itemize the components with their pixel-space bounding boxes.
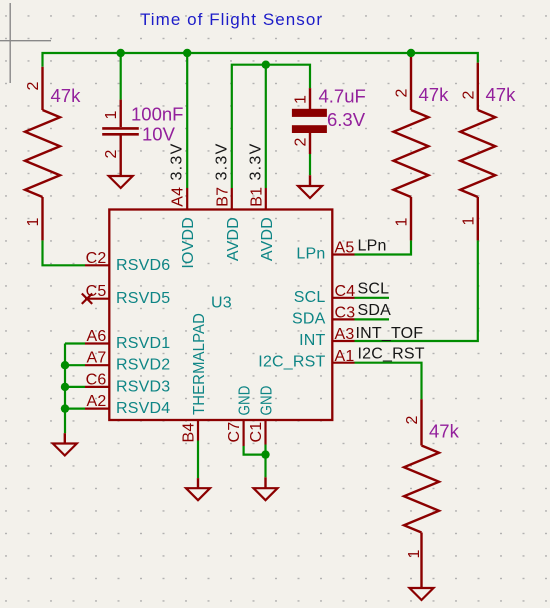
svg-text:47k: 47k (429, 421, 460, 442)
pin C6 RSVD3 stub (85, 386, 109, 388)
junction GND pins join (261, 450, 269, 458)
pin A1 I2C_RST stub (332, 362, 354, 364)
svg-text:B4: B4 (181, 423, 198, 443)
svg-text:1: 1 (460, 216, 477, 225)
resistor R1 47k (pull-up on RSVD6) (25, 67, 60, 241)
resistor R5 47k (on I2C_RST) (404, 399, 439, 588)
svg-text:A1: A1 (335, 348, 355, 365)
resistor R3 47k (pull-up on LPn) (394, 57, 429, 240)
junction on 3.3V bus at IOVDD drop (183, 49, 191, 57)
svg-text:AVDD: AVDD (259, 217, 276, 261)
svg-text:3.3V: 3.3V (213, 143, 230, 180)
svg-text:SDA: SDA (358, 302, 392, 319)
svg-text:2: 2 (460, 90, 477, 99)
svg-text:RSVD4: RSVD4 (116, 400, 170, 417)
pin A7 RSVD2 stub (85, 364, 109, 366)
pin A4 IOVDD stub (186, 188, 188, 210)
junction on 3.3V bus at R3 (407, 49, 415, 57)
wire C7 GND to C1 GND join (244, 446, 266, 455)
svg-text:SCL: SCL (358, 281, 390, 298)
wire SCL stub (355, 297, 390, 299)
pin B4 THERMALPAD stub (197, 420, 199, 441)
svg-text:2: 2 (394, 88, 411, 97)
pin A5 LPn stub (332, 253, 354, 255)
wire drop from 3.3V bus to pin A4 IOVDD (186, 53, 188, 188)
svg-text:U3: U3 (211, 295, 232, 312)
svg-text:100nF: 100nF (131, 104, 183, 125)
ground under 100nF cap (109, 176, 133, 188)
ground under C1/C7 GND pins (254, 477, 278, 500)
svg-text:THERMALPAD: THERMALPAD (191, 313, 208, 415)
wire drop to pin B1 AVDD (265, 65, 267, 188)
svg-text:1: 1 (394, 217, 411, 226)
svg-text:B7: B7 (214, 187, 231, 207)
svg-text:2: 2 (404, 415, 421, 424)
svg-text:6.3V: 6.3V (327, 109, 366, 130)
wire I2C_RST from pin A1 to R5 (355, 363, 422, 400)
svg-text:C5: C5 (86, 283, 107, 300)
svg-text:2: 2 (25, 81, 42, 90)
no-connect x on pin C5 (82, 294, 92, 304)
svg-text:LPn: LPn (296, 246, 325, 263)
svg-text:Time of Flight Sensor: Time of Flight Sensor (140, 10, 322, 29)
wire stub pin A2 RSVD4 (65, 408, 85, 410)
svg-text:1: 1 (103, 110, 120, 119)
pin A6 RSVD1 stub (85, 342, 109, 344)
svg-text:RSVD3: RSVD3 (116, 378, 170, 395)
wire R3 top to 3.3V bus junction (410, 53, 412, 57)
svg-text:C1: C1 (248, 422, 265, 443)
wire stub pin C6 RSVD3 (65, 386, 85, 388)
svg-text:1: 1 (25, 217, 42, 226)
junction on AVDD segment at B1 drop (262, 60, 270, 68)
wire AVDD horizontal segment to pin B7 and cap 4.7uF (232, 65, 310, 188)
svg-text:GND: GND (237, 386, 254, 416)
junction RSVD2 wire (61, 361, 69, 369)
svg-text:3.3V: 3.3V (169, 143, 186, 180)
svg-text:10V: 10V (142, 124, 176, 145)
junction on 3.3V bus at 100nF cap (117, 49, 125, 57)
wire from R1 bottom to pin C2 RSVD6 (43, 240, 86, 265)
svg-text:1: 1 (406, 549, 423, 558)
svg-text:RSVD6: RSVD6 (116, 257, 170, 274)
pin B1 AVDD stub (265, 188, 267, 210)
svg-text:RSVD5: RSVD5 (116, 290, 170, 307)
resistor R4 47k (pull-up on INT_TOF) (460, 63, 495, 241)
wire stub pin A7 RSVD2 (65, 364, 85, 366)
wire C1 GND down to ground (264, 445, 266, 478)
ground under R5 (410, 588, 434, 600)
svg-text:3.3V: 3.3V (248, 143, 265, 180)
svg-text:RSVD1: RSVD1 (116, 335, 170, 352)
pin C5 RSVD5 stub (85, 298, 109, 300)
svg-text:47k: 47k (486, 84, 517, 105)
svg-text:A7: A7 (87, 350, 107, 367)
ground under 4.7uF cap (298, 186, 322, 198)
pin C2 RSVD6 stub (85, 264, 109, 266)
svg-text:I2C_RST: I2C_RST (258, 354, 325, 371)
capacitor 4.7uF 6.3V polarized (292, 88, 327, 186)
ground under B4 thermal pad (186, 478, 210, 500)
svg-text:A3: A3 (335, 326, 355, 343)
wire B4 thermal pad to ground (197, 441, 199, 479)
svg-text:C7: C7 (226, 422, 243, 443)
wire drop from 3.3V bus to capacitor 100nF (120, 53, 122, 100)
junction RSVD4 wire (61, 404, 69, 412)
svg-text:A5: A5 (335, 240, 355, 257)
svg-text:B1: B1 (249, 187, 266, 207)
wire stub pin A6 RSVD1 (65, 342, 85, 344)
svg-text:A6: A6 (87, 328, 107, 345)
ground under RSVD pins (53, 433, 77, 455)
pin C7 GND stub (243, 420, 245, 446)
svg-text:GND: GND (259, 386, 276, 416)
svg-text:C2: C2 (86, 250, 107, 267)
svg-text:C6: C6 (86, 371, 107, 388)
svg-text:RSVD2: RSVD2 (116, 357, 170, 374)
svg-text:1: 1 (293, 95, 310, 104)
svg-text:4.7uF: 4.7uF (319, 86, 366, 107)
pin C3 SDA stub (332, 318, 354, 320)
svg-text:C3: C3 (335, 305, 356, 322)
wire vertical joining RSVD pins to ground (64, 344, 66, 434)
wire LPn from pin A5 up to R3 (355, 240, 412, 254)
svg-text:INT_TOF: INT_TOF (356, 325, 424, 342)
sheet origin crosshair (0, 3, 51, 83)
svg-text:LPn: LPn (358, 237, 387, 254)
svg-text:47k: 47k (51, 85, 82, 106)
svg-text:I2C_RST: I2C_RST (358, 346, 425, 363)
pin C1 GND stub (264, 420, 266, 445)
svg-text:IOVDD: IOVDD (180, 217, 197, 269)
wire SDA stub (355, 318, 390, 320)
svg-text:2: 2 (103, 149, 120, 158)
svg-text:2: 2 (293, 137, 310, 146)
svg-text:A2: A2 (87, 393, 107, 410)
pin C4 SCL stub (332, 297, 354, 299)
svg-text:AVDD: AVDD (225, 217, 242, 261)
pin B7 AVDD stub (231, 188, 233, 210)
wire 3.3V main horizontal bus (43, 53, 478, 67)
capacitor 100nF 10V decoupling (102, 100, 139, 176)
svg-text:47k: 47k (419, 84, 450, 105)
pin A3 INT stub (332, 340, 354, 342)
svg-text:SCL: SCL (294, 289, 326, 306)
IC U3 body outline (109, 210, 332, 421)
svg-text:SDA: SDA (292, 310, 326, 327)
svg-text:INT: INT (299, 332, 325, 349)
wire INT_TOF from pin A3 up to R4 (355, 240, 478, 341)
svg-text:C4: C4 (335, 283, 356, 300)
svg-text:A4: A4 (170, 187, 187, 207)
junction RSVD3 wire (61, 383, 69, 391)
pin A2 RSVD4 stub (85, 408, 109, 410)
